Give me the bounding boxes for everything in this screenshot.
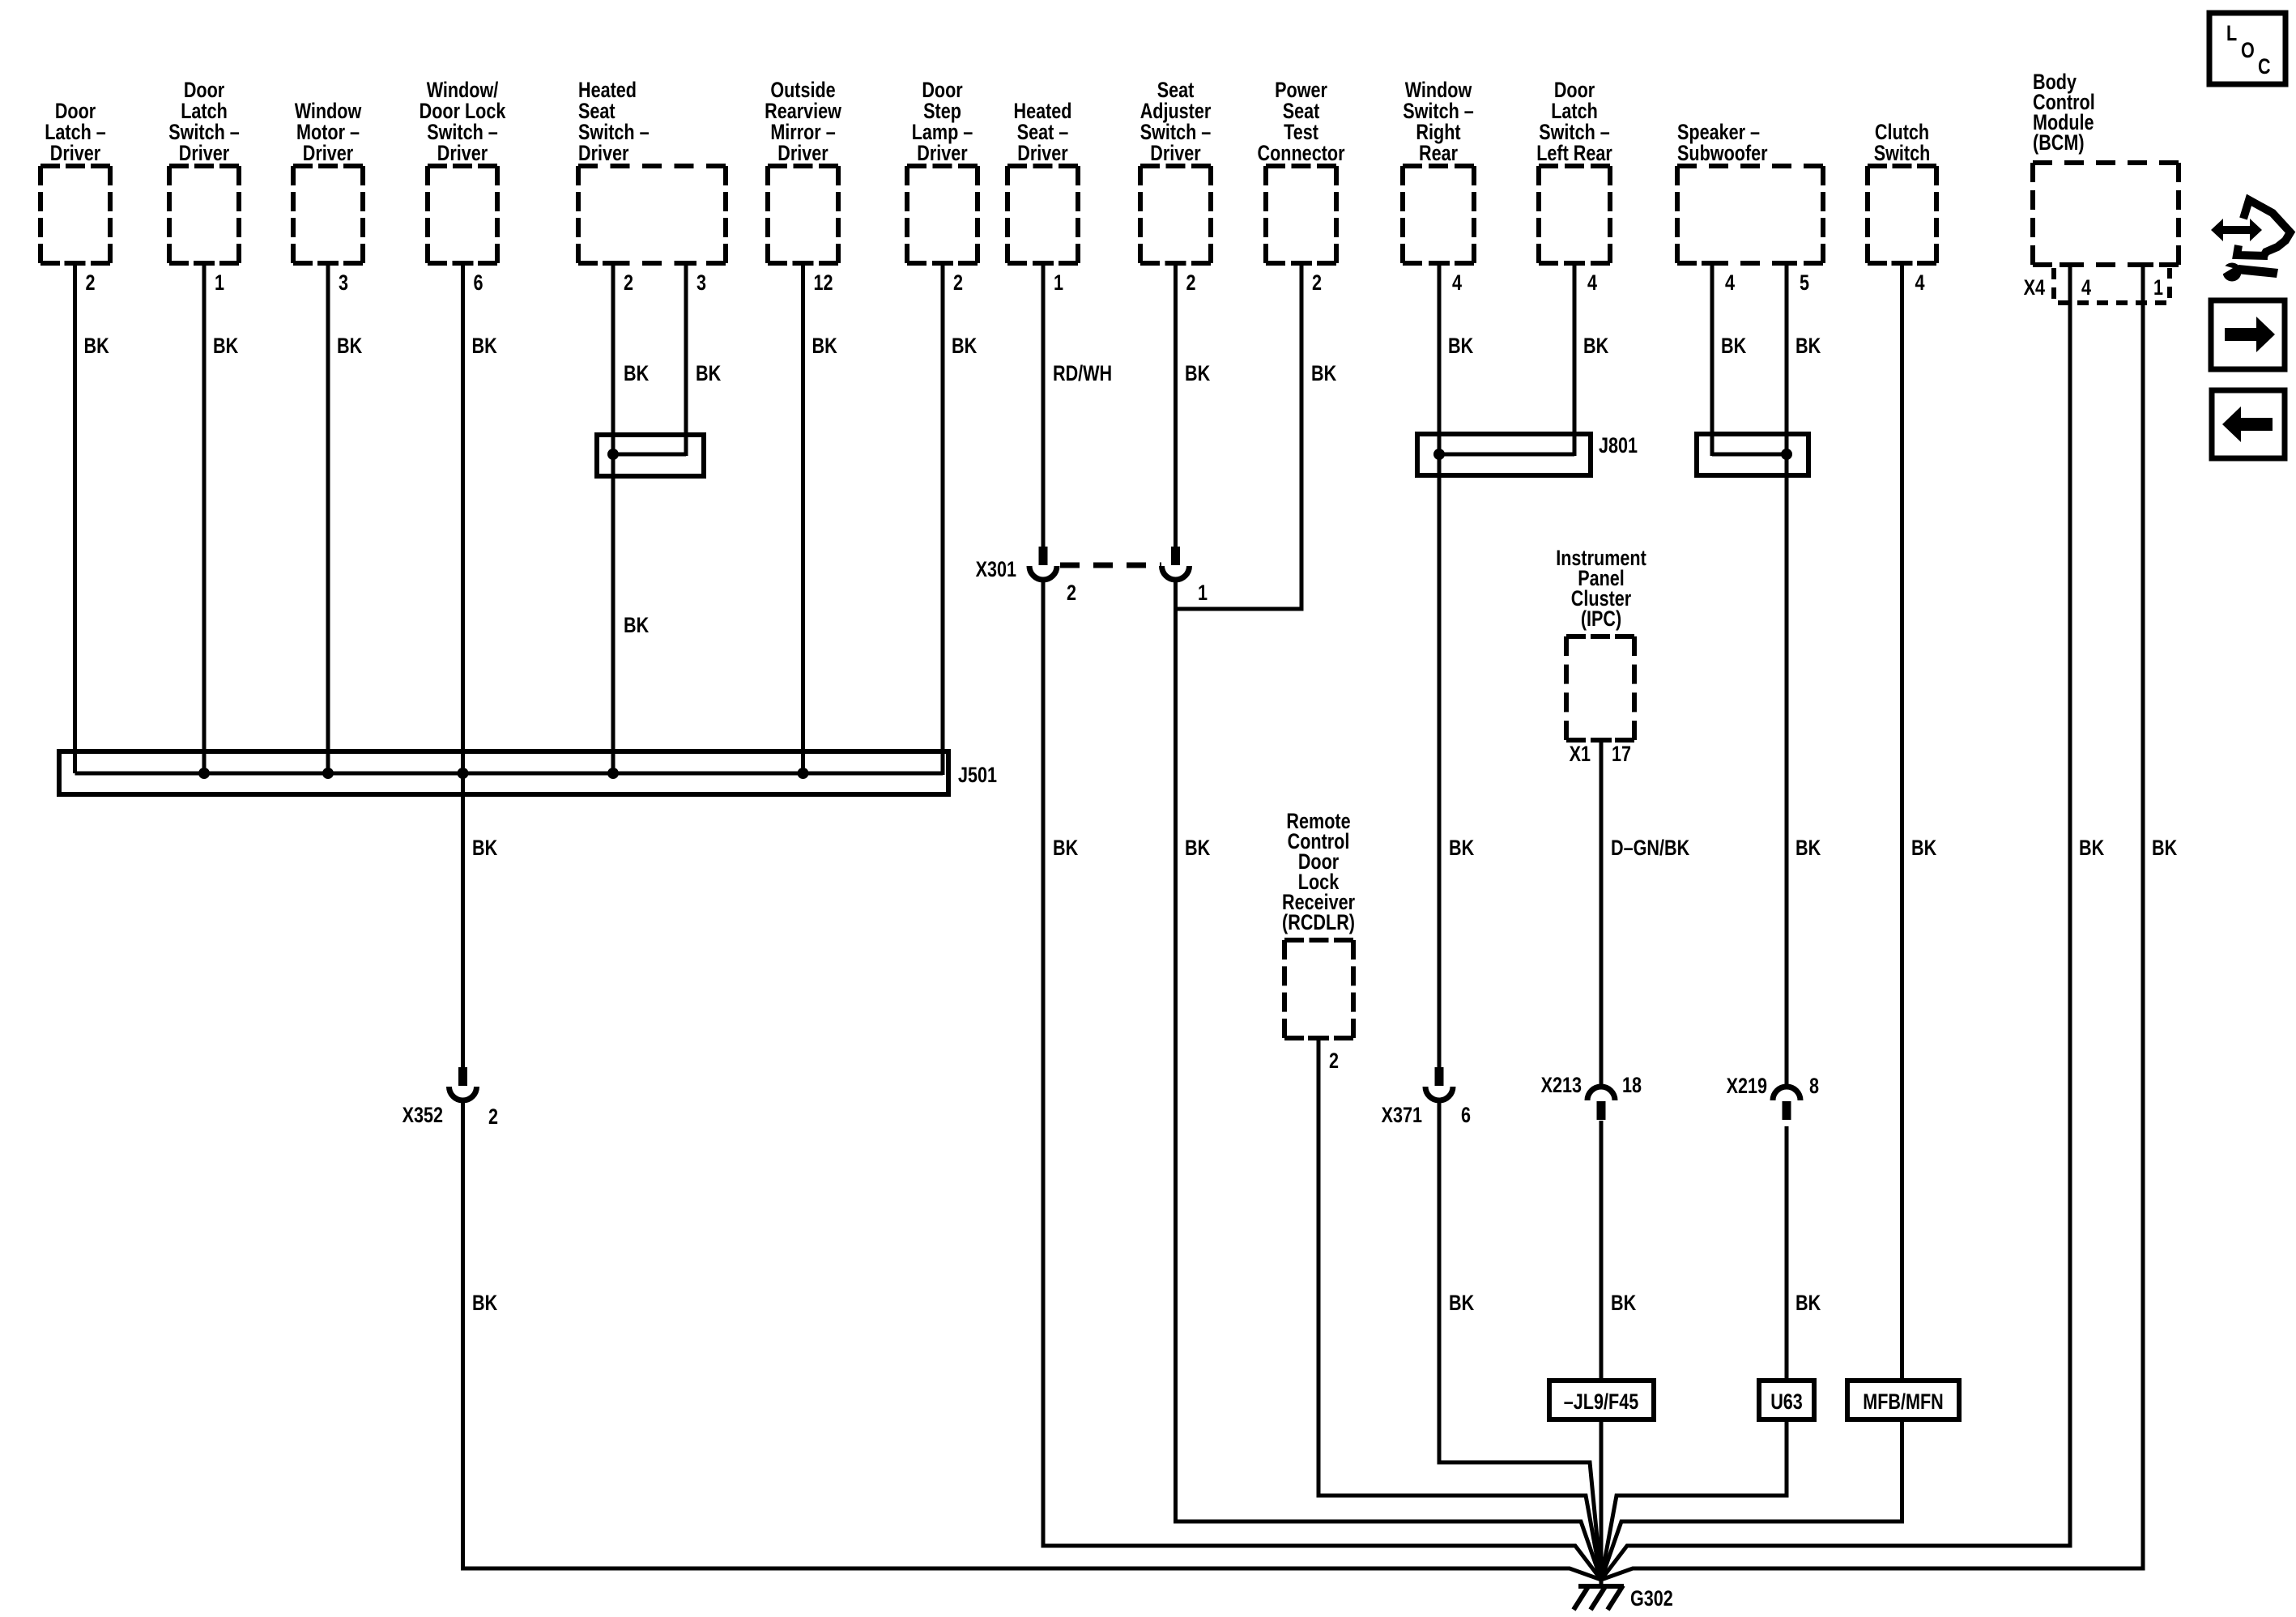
svg-text:Connector: Connector [1258,142,1345,166]
module U: Body Control Module (BCM) dashed box [2033,160,2179,165]
svg-text:L: L [2226,22,2237,46]
svg-text:2: 2 [1312,271,1322,296]
wire w17: BCM X4-4 to ground fan [1601,265,2070,1580]
option box -JL9/F45 [1549,1381,1654,1419]
connector box: Door Step Lamp - Driver [907,164,978,168]
svg-text:D–GN/BK: D–GN/BK [1611,836,1689,861]
wire colour labels row B [624,362,649,386]
wire w9a: heated seat pin1 to X301 [1042,263,1046,547]
svg-text:O: O [2241,39,2255,63]
wire w5: heated seat switch pin2 through splice to J501 [611,263,616,773]
svg-text:6: 6 [1461,1104,1471,1128]
in-line connector X301 pin2 (pin+cup) [1039,547,1048,565]
svg-text:BK: BK [472,1291,497,1316]
svg-text:J501: J501 [958,764,997,788]
wire w12b: X371 to ground fan [1439,1102,1601,1580]
BCM pin 1 [2153,276,2163,300]
svg-text:12: 12 [814,271,833,296]
connector box: Speaker - Subwoofer [1677,164,1823,168]
in-line connector X371 (pin+cup) [1435,1067,1444,1086]
label X219 [1727,1074,1767,1099]
svg-text:2: 2 [86,271,96,296]
module: Remote Control Door Lock Receiver (RCDLR) dashed box [1284,938,1353,943]
svg-text:4: 4 [1452,271,1462,296]
wire w4a: window/door-lock switch pin6 through J501 to X352 [461,263,465,1067]
svg-text:Driver: Driver [917,142,968,166]
wire w8: door step lamp pin2 to J501 [941,263,945,775]
svg-text:2: 2 [1067,581,1076,606]
in-line connector X301 pin1 (pin+cup) [1171,547,1180,565]
svg-text:BK: BK [624,362,649,386]
svg-text:4: 4 [1915,271,1925,296]
wire RCDLR pin2 to ground fan [1318,1038,1601,1580]
svg-text:X352: X352 [403,1104,443,1128]
label X371 [1382,1104,1422,1128]
svg-text:2: 2 [953,271,963,296]
wire X213 to ground [1600,1121,1604,1585]
svg-text:Driver: Driver [777,142,829,166]
svg-text:BK: BK [1053,836,1078,861]
svg-text:G302: G302 [1630,1587,1673,1611]
option box MFB/MFN [1847,1381,1959,1419]
label X4 [2024,276,2046,300]
splice bar J501 [59,751,948,794]
label G302 [1630,1587,1673,1611]
wire colour labels mid row [472,836,497,861]
svg-text:BK: BK [1721,334,1746,359]
svg-text:3: 3 [339,271,348,296]
wire spliceSpk inner [1712,453,1787,457]
svg-text:BK: BK [812,334,837,359]
splice bar (speaker) [1697,434,1808,475]
svg-text:(RCDLR): (RCDLR) [1282,911,1355,935]
svg-text:Driver: Driver [1150,142,1201,166]
svg-text:X1: X1 [1570,743,1591,767]
module: Instrument Panel Cluster (IPC) dashed box [1566,634,1634,639]
svg-text:Subwoofer: Subwoofer [1677,142,1768,166]
wire w18: BCM X4-1 to ground fan [1601,265,2143,1580]
legend forward arrow box [2211,300,2285,369]
wire w10a: seat adjuster pin2 to X301 [1174,263,1178,547]
svg-text:Driver: Driver [1017,142,1068,166]
wire w7: mirror pin12 to J501 [801,263,805,773]
wire J801 inner [1439,453,1574,457]
connector box: Heated Seat - Driver [1007,164,1078,168]
svg-text:BK: BK [2152,836,2177,861]
label X301 [976,558,1016,582]
svg-text:BK: BK [337,334,362,359]
legend diagnostic-tool icon [2243,200,2290,257]
in-line connector X352 (pin+cup) [458,1067,467,1086]
wire w10b: X301 to ground fan [1176,580,1602,1580]
splice bar J801 [1417,434,1591,475]
wire w3: window motor pin3 to J501 [326,263,330,773]
svg-text:BK: BK [1449,836,1474,861]
connector box: Door Latch Switch - Left Rear [1539,164,1610,168]
svg-text:BK: BK [1583,334,1608,359]
connector box: Seat Adjuster Switch - Driver [1140,164,1211,168]
junction dot spliceSpk [1781,449,1792,460]
splice bar (heated seat switch) [597,435,704,476]
legend LOC box [2209,13,2285,84]
svg-text:BK: BK [1611,1291,1636,1316]
svg-text:RD/WH: RD/WH [1053,362,1112,386]
svg-text:BK: BK [84,334,109,359]
wire splice5 inner [613,453,686,457]
svg-text:X301: X301 [976,558,1016,582]
svg-text:3: 3 [696,271,706,296]
in-line connector X219 (cap+pin) [1773,1087,1800,1100]
svg-text:BK: BK [1448,334,1473,359]
label X301 pin 1 [1198,581,1208,606]
svg-text:Driver: Driver [50,142,101,166]
connector box: Power Seat Test Connector [1266,164,1336,168]
svg-text:Driver: Driver [437,142,488,166]
svg-text:X213: X213 [1541,1074,1582,1098]
svg-text:(BCM): (BCM) [2033,131,2085,155]
svg-text:X219: X219 [1727,1074,1767,1099]
label J801 [1599,434,1638,458]
svg-text:BK: BK [1795,334,1821,359]
RCDLR pin 2 [1329,1049,1339,1074]
in-line connector X213 (cap+pin) [1587,1087,1615,1100]
svg-text:2: 2 [624,271,633,296]
svg-text:1: 1 [2153,276,2163,300]
wire colour labels row A (BK) [84,334,109,359]
svg-text:BK: BK [1449,1291,1474,1316]
wire w16: clutch switch pin4 to ground fan [1601,263,1902,1580]
svg-text:2: 2 [488,1105,498,1130]
svg-text:BK: BK [472,334,497,359]
svg-text:Rear: Rear [1419,142,1458,166]
svg-text:BK: BK [1795,1291,1821,1316]
connector box: Door Latch - Driver [40,164,110,168]
svg-text:4: 4 [2081,276,2091,300]
connector box: Door Latch Switch - Driver [169,164,239,168]
wire colour labels low row (BK) [472,1291,497,1316]
svg-text:18: 18 [1622,1074,1642,1098]
svg-text:17: 17 [1612,743,1631,767]
wire w6: heated seat switch pin3 into splice [684,263,688,456]
svg-text:4: 4 [1587,271,1597,296]
svg-text:BK: BK [952,334,977,359]
BCM pin 4 [2081,276,2091,300]
svg-text:Switch: Switch [1874,142,1931,166]
wire w9b: X301 to ground fan [1043,580,1601,1580]
label X352 pin 2 [488,1105,498,1130]
wire w2: door latch switch pin1 to J501 [202,263,207,773]
svg-text:2: 2 [1329,1049,1339,1074]
svg-text:BK: BK [1311,362,1336,386]
svg-text:BK: BK [472,836,497,861]
svg-text:Driver: Driver [303,142,354,166]
svg-text:BK: BK [213,334,238,359]
wire J501 inner [75,772,944,776]
wire w15b: X219 to ground fan [1601,1126,1787,1580]
wire w4b: X352 to ground fan [463,1102,1602,1580]
legend back arrow box [2212,390,2285,458]
connector box: Heated Seat Switch - Driver [578,164,726,168]
svg-text:Driver: Driver [578,142,629,166]
IPC pin 17 [1612,743,1631,767]
svg-text:1: 1 [1054,271,1063,296]
svg-text:2: 2 [1186,271,1196,296]
svg-text:Driver: Driver [179,142,230,166]
svg-text:MFB/MFN: MFB/MFN [1863,1390,1944,1415]
label X213 pin 18 [1622,1074,1642,1098]
svg-text:X371: X371 [1382,1104,1422,1128]
connector box: Window Motor - Driver [293,164,363,168]
connector box: Window Switch - Right Rear [1403,164,1474,168]
wire w15a: speaker pin5 through splice to X219 [1785,263,1789,1087]
connector box: Window/Door Lock Switch - Driver [428,164,497,168]
option box U63 [1759,1381,1814,1419]
label X301 pin 2 [1067,581,1076,606]
wire colour label w5 mid (BK) [624,614,649,638]
svg-text:BK: BK [1795,836,1821,861]
svg-text:U63: U63 [1770,1390,1803,1415]
BCM connector X4 sub-box [2054,268,2170,303]
svg-text:BK: BK [1185,836,1210,861]
IPC connector label X1 [1570,743,1591,767]
svg-text:1: 1 [215,271,224,296]
junction dot J801 [1433,449,1445,460]
svg-text:4: 4 [1725,271,1735,296]
wire w13: door latch switch LR pin4 into J801 [1573,263,1577,456]
svg-text:5: 5 [1800,271,1809,296]
svg-text:BK: BK [2079,836,2104,861]
junction dot splice5 [607,449,619,460]
label X213 [1541,1074,1582,1098]
wire w11: power seat test connector pin2 joins w10 [1176,263,1302,609]
wire w1: door latch driver pin2 to J501 [73,263,77,773]
svg-text:J801: J801 [1599,434,1638,458]
connector box: Outside Rearview Mirror - Driver [768,164,838,168]
label J501 [958,764,997,788]
junction dots J501 [198,768,210,779]
label X352 [403,1104,443,1128]
svg-text:6: 6 [474,271,483,296]
svg-text:BK: BK [1185,362,1210,386]
label X371 pin 6 [1461,1104,1471,1128]
svg-text:Left Rear: Left Rear [1536,142,1612,166]
svg-text:C: C [2258,55,2271,79]
connector box: Clutch Switch [1868,164,1936,168]
svg-text:8: 8 [1809,1074,1819,1099]
svg-text:1: 1 [1198,581,1208,606]
svg-text:X4: X4 [2024,276,2046,300]
svg-text:(IPC): (IPC) [1581,607,1621,632]
ground G302 symbol [1578,1584,1624,1589]
label X219 pin 8 [1809,1074,1819,1099]
svg-text:BK: BK [624,614,649,638]
wire IPC X1-17 to X213 [1600,740,1604,1087]
wire w14: speaker pin4 into splice [1710,263,1715,456]
dashed connector link X301 [1060,563,1161,568]
svg-text:–JL9/F45: –JL9/F45 [1564,1390,1638,1415]
svg-text:BK: BK [1911,836,1936,861]
svg-text:BK: BK [696,362,721,386]
wire w12a: window switch RR pin4 through J801 to X371 [1438,263,1442,1067]
